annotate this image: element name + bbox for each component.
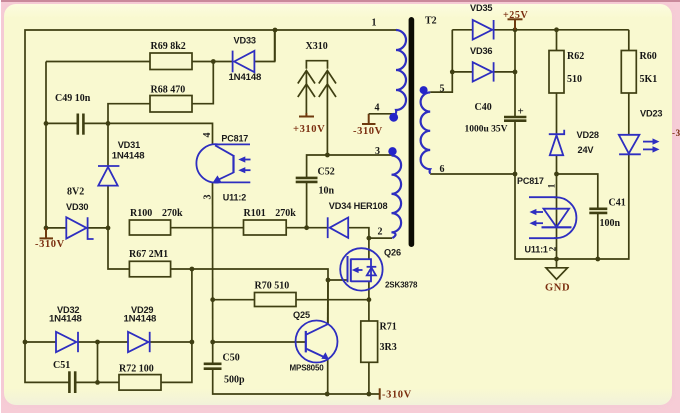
svg-text:MPS8050: MPS8050: [290, 364, 325, 373]
svg-text:1N4148: 1N4148: [112, 150, 146, 161]
svg-text:C51: C51: [53, 360, 70, 371]
svg-text:2: 2: [378, 227, 383, 238]
svg-text:1000u 35V: 1000u 35V: [465, 125, 508, 135]
svg-text:-310V: -310V: [353, 126, 383, 137]
svg-text:VD35: VD35: [470, 3, 492, 13]
svg-text:3: 3: [375, 146, 380, 157]
svg-text:R68 470: R68 470: [151, 85, 186, 96]
svg-text:1N4148: 1N4148: [229, 72, 263, 83]
svg-text:5: 5: [440, 83, 445, 94]
svg-text:U11:2: U11:2: [223, 192, 246, 202]
svg-text:C50: C50: [223, 353, 240, 364]
svg-text:R69 8k2: R69 8k2: [151, 41, 186, 52]
svg-text:PC817: PC817: [221, 134, 248, 144]
svg-text:8V2: 8V2: [67, 187, 84, 198]
svg-text:VD36: VD36: [470, 46, 492, 56]
svg-text:R70 510: R70 510: [255, 281, 290, 292]
svg-text:X310: X310: [306, 41, 328, 52]
svg-text:R101: R101: [244, 208, 266, 219]
svg-text:VD31: VD31: [118, 140, 140, 150]
svg-text:R60: R60: [640, 51, 657, 62]
svg-text:100n: 100n: [600, 218, 621, 229]
svg-text:R62: R62: [567, 51, 584, 62]
svg-text:4: 4: [202, 133, 213, 138]
svg-text:5K1: 5K1: [640, 74, 658, 85]
svg-text:24V: 24V: [578, 145, 595, 155]
svg-text:-3: -3: [672, 128, 680, 138]
svg-text:1: 1: [372, 18, 377, 29]
svg-text:500p: 500p: [224, 375, 245, 386]
svg-text:270k: 270k: [275, 208, 296, 219]
svg-text:4: 4: [375, 103, 380, 114]
svg-text:VD34 HER108: VD34 HER108: [329, 201, 388, 211]
svg-text:PC817: PC817: [517, 176, 544, 186]
svg-text:C41: C41: [609, 198, 626, 209]
svg-text:U11:1: U11:1: [525, 244, 548, 254]
svg-text:3R3: 3R3: [380, 342, 397, 353]
svg-text:GND: GND: [545, 283, 570, 294]
svg-text:+25V: +25V: [503, 10, 528, 21]
svg-text:1N4148: 1N4148: [49, 313, 83, 324]
svg-text:R100: R100: [130, 208, 152, 219]
svg-text:T2: T2: [425, 16, 437, 27]
svg-text:C52: C52: [318, 167, 335, 178]
svg-text:C40: C40: [475, 102, 492, 113]
svg-text:1N4148: 1N4148: [124, 313, 158, 324]
svg-text:+310V: +310V: [293, 124, 325, 135]
svg-text:2: 2: [548, 246, 558, 251]
svg-text:-310V: -310V: [382, 390, 412, 401]
svg-text:VD28: VD28: [577, 130, 599, 140]
svg-text:10n: 10n: [319, 186, 335, 197]
svg-text:510: 510: [567, 74, 582, 85]
svg-text:270k: 270k: [162, 208, 183, 219]
svg-text:2SK3878: 2SK3878: [385, 280, 418, 289]
svg-text:R67 2M1: R67 2M1: [129, 249, 168, 260]
svg-text:1: 1: [547, 183, 557, 188]
svg-text:Q26: Q26: [384, 248, 401, 258]
svg-text:-310V: -310V: [35, 239, 65, 250]
svg-text:R71: R71: [380, 322, 397, 333]
svg-text:VD23: VD23: [640, 109, 662, 119]
svg-text:VD33: VD33: [234, 35, 256, 45]
svg-text:Q25: Q25: [293, 310, 310, 320]
svg-text:6: 6: [440, 164, 445, 175]
svg-text:VD30: VD30: [66, 202, 88, 212]
svg-text:3: 3: [202, 195, 213, 200]
svg-text:R72 100: R72 100: [119, 364, 154, 375]
svg-text:+: +: [518, 106, 524, 118]
svg-text:C49 10n: C49 10n: [55, 93, 91, 104]
